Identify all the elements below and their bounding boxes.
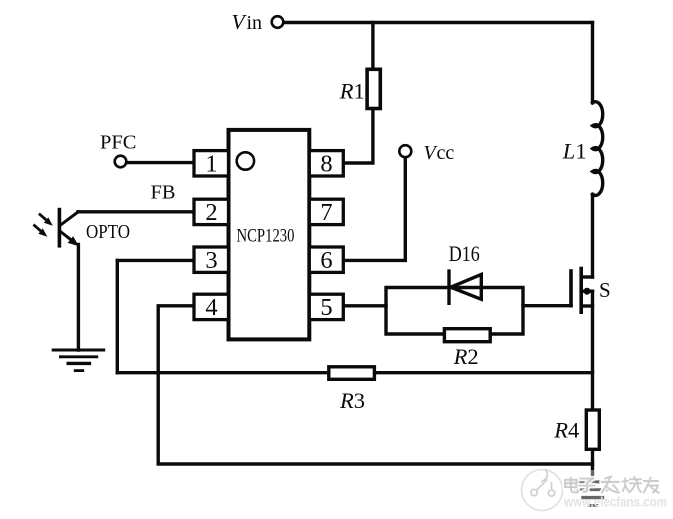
svg-text:R1: R1 [339, 79, 365, 104]
svg-text:8: 8 [320, 151, 332, 178]
svg-text:R3: R3 [339, 388, 365, 413]
svg-text:1: 1 [205, 151, 217, 178]
svg-text:4: 4 [205, 294, 217, 321]
svg-text:www.elecfans.com: www.elecfans.com [563, 495, 667, 510]
svg-text:OPTO: OPTO [86, 221, 130, 243]
svg-text:5: 5 [320, 294, 332, 321]
svg-text:3: 3 [205, 247, 217, 274]
svg-text:in: in [247, 12, 263, 34]
svg-text:2: 2 [205, 199, 217, 226]
svg-text:7: 7 [320, 199, 332, 226]
svg-text:R2: R2 [453, 344, 479, 369]
svg-text:S: S [599, 278, 611, 302]
svg-text:PFC: PFC [100, 132, 137, 154]
svg-text:FB: FB [151, 182, 176, 204]
svg-text:R4: R4 [553, 417, 579, 442]
svg-text:cc: cc [437, 142, 455, 164]
svg-text:D16: D16 [449, 241, 480, 266]
svg-text:6: 6 [320, 247, 332, 274]
svg-text:L1: L1 [562, 138, 587, 163]
svg-text:NCP1230: NCP1230 [237, 225, 295, 246]
